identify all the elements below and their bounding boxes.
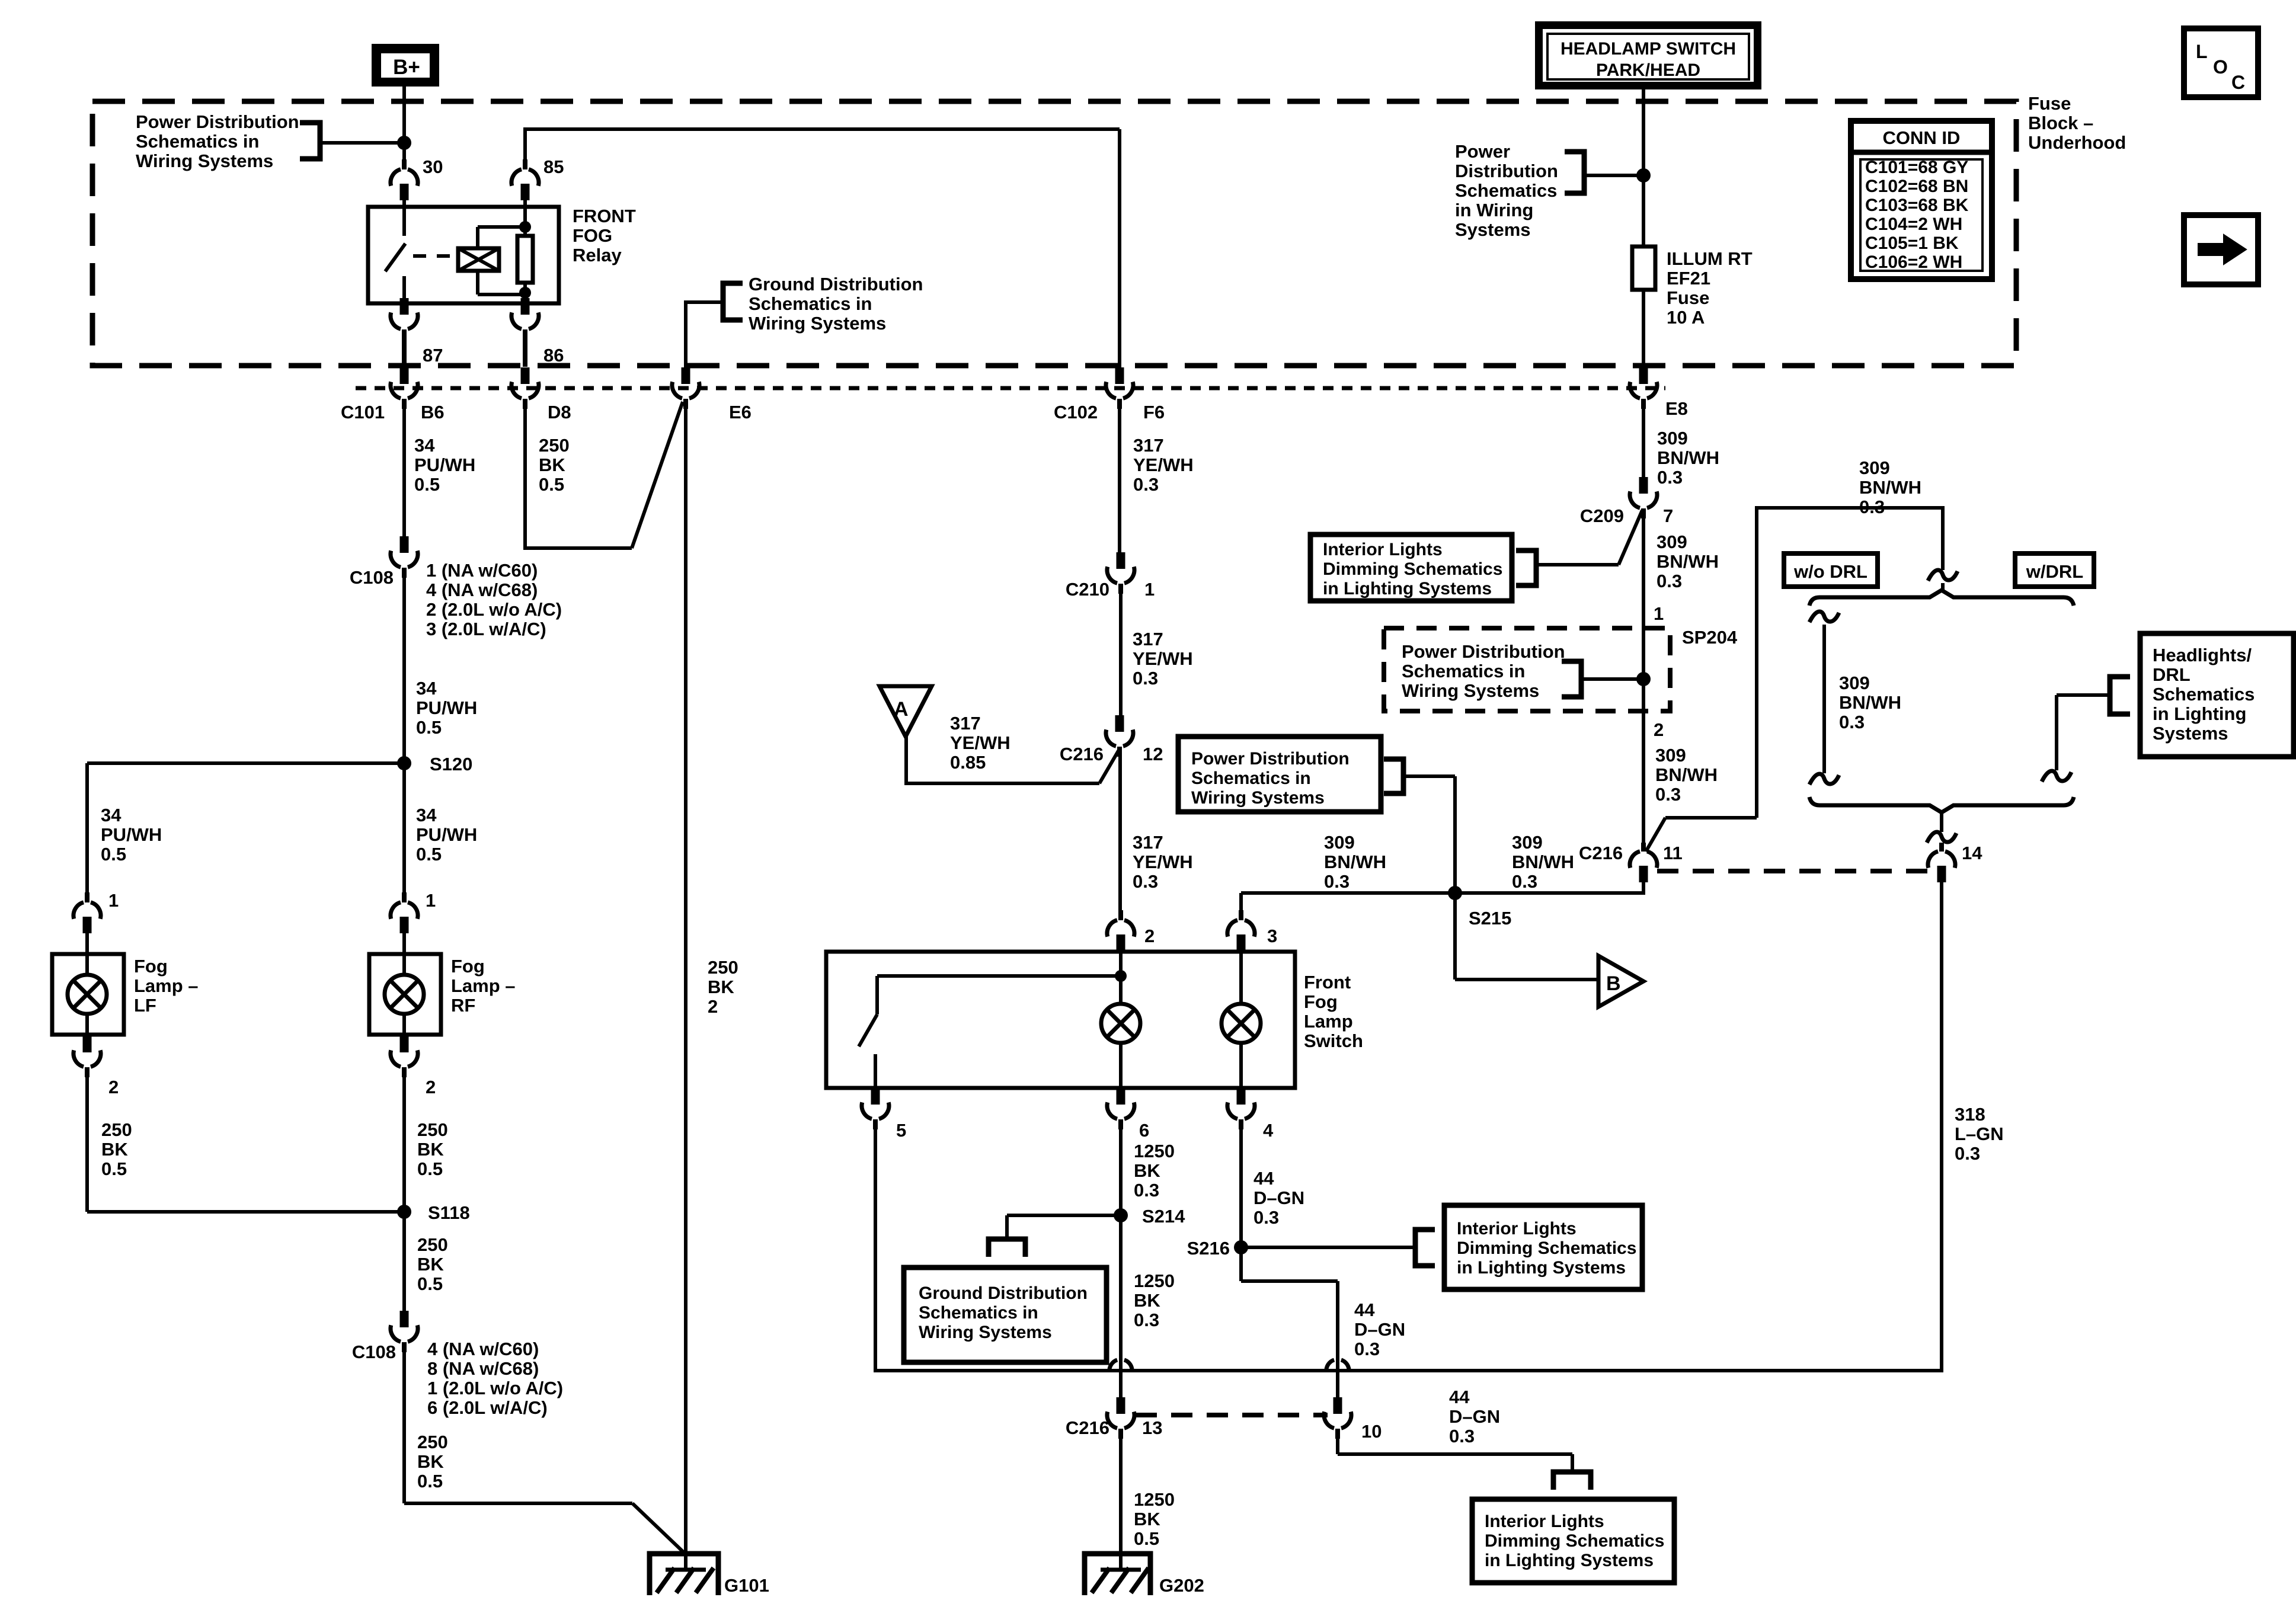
relay coil link dashed — [413, 254, 455, 258]
wire F6 to C210 — [1118, 408, 1121, 553]
label C210 — [1066, 579, 1109, 600]
node S215 — [1448, 886, 1462, 900]
wire label 309 BN/WH 0.3 (right of S215) — [1512, 832, 1574, 892]
svg-text:86: 86 — [543, 345, 564, 366]
svg-text:0.5: 0.5 — [417, 1158, 443, 1179]
label 87 — [423, 345, 443, 366]
power supply B+ box — [372, 44, 439, 87]
wire label 44 D-GN 0.3 (pin 10) — [1449, 1387, 1500, 1446]
svg-text:5: 5 — [896, 1120, 906, 1141]
wire S118 to C108 lower — [402, 1212, 406, 1311]
break w/o DRL top — [1809, 612, 1839, 622]
wire C209 to SP204 to C216-11 — [1642, 518, 1645, 844]
svg-text:Interior Lights: Interior Lights — [1485, 1512, 1604, 1531]
svg-text:Ground Distribution: Ground Distribution — [749, 274, 923, 295]
connector pin 86 — [511, 298, 539, 367]
wire label 309 BN/WH 0.3 (top right) — [1859, 457, 1921, 517]
label Ground Distribution Schematics in Wiring Systems (lower) — [919, 1283, 1088, 1342]
svg-text:7: 7 — [1663, 505, 1673, 526]
wire break to brace — [1941, 583, 1945, 593]
svg-text:B+: B+ — [393, 56, 420, 79]
svg-text:Fog: Fog — [1304, 991, 1338, 1012]
wire S216 to connector 10 — [1241, 1247, 1338, 1397]
label S215 — [1469, 908, 1511, 929]
wire S216 to interior lights bracket — [1241, 1246, 1415, 1249]
dashed line C216 13-10 — [1136, 1413, 1328, 1417]
svg-text:4 (NA w/C60): 4 (NA w/C60) — [427, 1339, 539, 1359]
svg-text:317: 317 — [1133, 832, 1163, 853]
svg-text:Wiring Systems: Wiring Systems — [136, 151, 273, 171]
svg-text:6 (2.0L w/A/C): 6 (2.0L w/A/C) — [427, 1397, 548, 1418]
svg-text:w/DRL: w/DRL — [2026, 561, 2083, 582]
svg-text:0.3: 0.3 — [1655, 784, 1681, 805]
connector fog lamp LF pin 1 — [73, 892, 101, 933]
connector switch pin 3 — [1227, 910, 1255, 951]
svg-text:Lamp: Lamp — [1304, 1011, 1353, 1032]
node SP204 — [1636, 672, 1651, 686]
label 3 (switch) — [1267, 926, 1277, 946]
wire bracket to S215 — [1403, 776, 1455, 893]
label S120 — [430, 754, 472, 774]
connector C210 pin 1 — [1107, 552, 1134, 594]
svg-text:C101=68 GY: C101=68 GY — [1865, 158, 1968, 177]
wire label 309 BN/WH 0.3 (w/o DRL) — [1839, 673, 1901, 732]
wire label 250 BK 0.5 (to G101) — [417, 1432, 448, 1491]
wire C210 to C216-12 — [1119, 593, 1123, 716]
svg-text:0.5: 0.5 — [417, 1471, 443, 1491]
svg-text:0.3: 0.3 — [1354, 1339, 1380, 1359]
node S216 — [1234, 1240, 1248, 1254]
wire E8 to C209 — [1642, 408, 1645, 478]
svg-text:Lamp –: Lamp – — [451, 975, 516, 996]
reference bracket interior lights (top) — [1516, 550, 1536, 585]
svg-text:Wiring Systems: Wiring Systems — [1191, 788, 1325, 808]
svg-text:250: 250 — [417, 1119, 448, 1140]
svg-text:34: 34 — [416, 805, 437, 825]
svg-text:Fog: Fog — [451, 956, 485, 977]
label 12 — [1143, 744, 1163, 764]
svg-text:2: 2 — [426, 1077, 436, 1097]
svg-text:ILLUM RT: ILLUM RT — [1667, 248, 1753, 269]
wire label 250 BK 0.5 (RF) — [417, 1119, 448, 1179]
label S214 — [1142, 1206, 1185, 1227]
label 2 (RF) — [426, 1077, 436, 1097]
svg-text:0.3: 0.3 — [1512, 871, 1537, 892]
label S118 — [428, 1202, 470, 1223]
relay resistor — [517, 200, 533, 299]
svg-text:C216: C216 — [1066, 1417, 1109, 1438]
wire C216-12 to switch pin 2 — [1118, 748, 1122, 913]
svg-text:BN/WH: BN/WH — [1324, 852, 1386, 872]
svg-text:C108: C108 — [352, 1342, 396, 1362]
svg-text:BN/WH: BN/WH — [1655, 764, 1718, 785]
svg-text:PU/WH: PU/WH — [414, 454, 475, 475]
label C216 (11) — [1579, 843, 1623, 863]
svg-text:3 (2.0L w/A/C): 3 (2.0L w/A/C) — [426, 619, 546, 639]
label Interior Lights Dimming Schematics in Lighting Systems (middle) — [1457, 1219, 1636, 1278]
svg-text:0.5: 0.5 — [101, 1158, 127, 1179]
wire label 250 BK 0.5 (D8) — [539, 435, 570, 495]
connector C216 pin 11 — [1630, 843, 1657, 882]
svg-text:317: 317 — [1133, 629, 1163, 649]
wire label 317 YE/WH 0.3 (C210) — [1133, 629, 1193, 689]
svg-text:HEADLAMP SWITCH: HEADLAMP SWITCH — [1560, 39, 1736, 59]
svg-text:2: 2 — [1144, 926, 1155, 946]
label G202 — [1159, 1575, 1204, 1596]
connector C108 (upper) — [391, 536, 418, 578]
svg-text:1: 1 — [1144, 579, 1155, 600]
label FRONT FOG Relay — [573, 206, 636, 265]
svg-text:D8: D8 — [548, 402, 571, 422]
interior lights box (bottom) — [1472, 1499, 1674, 1583]
svg-text:30: 30 — [423, 156, 443, 177]
svg-text:Dimming Schematics: Dimming Schematics — [1323, 559, 1502, 579]
svg-text:44: 44 — [1253, 1168, 1274, 1189]
wire S215 bus — [1241, 882, 1643, 913]
svg-text:Power: Power — [1455, 141, 1510, 162]
fog lamp LF bulb — [68, 975, 107, 1014]
label Fog Lamp - LF — [134, 956, 199, 1016]
wire 13 to G202 — [1119, 1438, 1123, 1556]
label Interior Lights Dimming Schematics in Lighting Systems (bottom) — [1485, 1512, 1664, 1570]
wire label 1250 BK 0.3 (pin 6) — [1134, 1141, 1175, 1201]
wire LF pin2 to S118 — [87, 1077, 404, 1212]
wire C108 to S120 — [402, 577, 406, 895]
svg-text:10 A: 10 A — [1667, 307, 1705, 328]
svg-text:Schematics: Schematics — [1455, 180, 1557, 201]
wire fuse to E8 — [1642, 290, 1645, 369]
break above pin 14 — [1927, 832, 1956, 843]
label SP204 — [1682, 627, 1738, 648]
svg-text:1: 1 — [426, 890, 436, 911]
node switch feed — [1115, 970, 1127, 982]
connector pin 87 — [391, 298, 418, 367]
svg-text:Dimming Schematics: Dimming Schematics — [1457, 1238, 1636, 1258]
reference bracket interior lights (middle) — [1415, 1230, 1435, 1266]
svg-text:S214: S214 — [1142, 1206, 1185, 1227]
svg-text:in Lighting Systems: in Lighting Systems — [1485, 1551, 1654, 1570]
node coil bottom — [519, 287, 531, 299]
label C101 — [341, 402, 385, 422]
switch lamp 2 wires — [1239, 950, 1243, 1089]
svg-text:0.3: 0.3 — [1657, 467, 1683, 488]
svg-text:Fuse: Fuse — [1667, 287, 1709, 308]
svg-text:0.3: 0.3 — [1839, 712, 1865, 732]
front fog relay box — [368, 207, 559, 303]
svg-text:S216: S216 — [1187, 1238, 1230, 1259]
svg-text:250: 250 — [417, 1234, 448, 1255]
hop arc at C216-13 — [1109, 1360, 1132, 1372]
svg-text:0.3: 0.3 — [1134, 1310, 1159, 1330]
hop arc at connector 10 — [1326, 1360, 1349, 1372]
svg-text:44: 44 — [1354, 1299, 1375, 1320]
svg-text:E8: E8 — [1665, 398, 1688, 419]
wire C108 lower to G101 — [404, 1352, 685, 1553]
connector B triangle — [1598, 956, 1643, 1007]
wire C209 branch to interior lights (diagonal) — [1536, 510, 1642, 565]
front fog lamp switch box — [826, 952, 1295, 1088]
headlamp switch box — [1535, 21, 1761, 89]
label 1 (C210) — [1144, 579, 1155, 600]
wire label 309 BN/WH 0.3 (left of S215) — [1324, 832, 1386, 892]
svg-text:12: 12 — [1143, 744, 1163, 764]
node S214 — [1114, 1208, 1128, 1222]
wire label 317 YE/WH 0.3 (F6) — [1133, 435, 1194, 495]
svg-text:Block –: Block – — [2028, 113, 2093, 133]
wire label 250 BK 2 — [708, 957, 738, 1017]
wire headlamp switch to fuse — [1642, 89, 1645, 247]
connector switch pin 2 — [1107, 910, 1134, 951]
svg-text:EF21: EF21 — [1667, 268, 1710, 289]
label 10 — [1361, 1421, 1382, 1442]
svg-text:Schematics in: Schematics in — [919, 1303, 1038, 1323]
connector C209 pin 7 — [1630, 477, 1657, 518]
label Fuse Block - Underhood — [2028, 93, 2126, 153]
svg-text:C106=2 WH: C106=2 WH — [1865, 252, 1962, 272]
wire pin 5 to bus — [875, 1129, 1942, 1372]
loc box — [2184, 28, 2258, 97]
connector row dotted line C101/C102 — [356, 386, 1665, 391]
connector fog lamp RF pin 1 — [391, 892, 418, 933]
connector C102 F6 — [1106, 367, 1133, 409]
wire w/o-w DRL loop — [1646, 506, 1945, 852]
node junction headlamp feed — [1636, 168, 1651, 183]
svg-text:0.5: 0.5 — [417, 1273, 443, 1294]
wire S120 to left branch — [87, 763, 404, 895]
svg-text:0.3: 0.3 — [1449, 1426, 1475, 1446]
svg-text:FOG: FOG — [573, 225, 612, 246]
svg-text:Front: Front — [1304, 972, 1351, 993]
connector C216 pin 13 — [1107, 1397, 1134, 1439]
label Power Distribution Schematics in Wiring Systems (middle) — [1191, 749, 1350, 808]
reference bracket headlights DRL — [2110, 677, 2130, 714]
label C209 — [1580, 505, 1624, 526]
reference bracket power distribution (right) — [1565, 152, 1584, 193]
wire label 34 PU/WH 0.5 (B6) — [414, 435, 475, 495]
break w/o DRL bottom — [1809, 774, 1839, 785]
label 6 — [1139, 1120, 1149, 1141]
wire S214 to ground reference — [1007, 1215, 1121, 1239]
wire SP204 bracket — [1581, 677, 1643, 681]
svg-text:YE/WH: YE/WH — [1133, 454, 1194, 475]
label Power Distribution Schematics in Wiring Systems (right) — [1455, 141, 1558, 240]
svg-text:C216: C216 — [1579, 843, 1623, 863]
svg-text:C216: C216 — [1060, 744, 1104, 764]
switch lamp 1 — [1101, 1004, 1140, 1043]
connector C216 pin 14 — [1928, 843, 1955, 882]
label 1 (SP204) — [1654, 603, 1664, 624]
svg-text:in Lighting Systems: in Lighting Systems — [1323, 579, 1492, 598]
label 30 — [423, 156, 443, 177]
label 11 — [1663, 843, 1683, 863]
wire 10 to interior lights reference — [1338, 1438, 1572, 1472]
svg-text:317: 317 — [1133, 435, 1164, 456]
label F6 — [1143, 402, 1165, 422]
connector pin 85 — [511, 159, 539, 200]
fog lamp LF box — [52, 933, 124, 1036]
label 2 (LF) — [108, 1077, 119, 1097]
svg-text:0.5: 0.5 — [414, 474, 440, 495]
fog lamp RF bulb — [385, 975, 424, 1014]
label Interior Lights Dimming Schematics in Lighting Systems (top) — [1323, 540, 1502, 598]
svg-text:250: 250 — [539, 435, 570, 456]
node S120 — [397, 756, 411, 770]
relay coil — [458, 227, 525, 295]
svg-text:309: 309 — [1655, 745, 1686, 766]
svg-text:in Lighting: in Lighting — [2153, 703, 2246, 724]
svg-text:Power Distribution: Power Distribution — [1191, 749, 1350, 769]
reference bracket power distribution (middle) — [1384, 759, 1403, 793]
svg-text:C210: C210 — [1066, 579, 1109, 600]
wire label 318 L-GN 0.3 — [1955, 1104, 2004, 1164]
svg-text:B: B — [1606, 972, 1621, 995]
wire label 250 BK 0.5 (below S118) — [417, 1234, 448, 1294]
svg-text:C101: C101 — [341, 402, 385, 422]
svg-text:PARK/HEAD: PARK/HEAD — [1596, 60, 1700, 80]
svg-text:0.5: 0.5 — [416, 844, 442, 865]
svg-text:309: 309 — [1512, 832, 1543, 853]
label B6 — [421, 402, 445, 422]
svg-text:Power Distribution: Power Distribution — [1402, 641, 1565, 662]
svg-text:0.3: 0.3 — [1134, 1180, 1159, 1201]
svg-text:1250: 1250 — [1134, 1489, 1175, 1510]
svg-text:34: 34 — [101, 805, 121, 825]
w/o DRL box — [1784, 553, 1878, 587]
svg-text:34: 34 — [416, 678, 437, 699]
svg-text:0.3: 0.3 — [1657, 571, 1682, 591]
svg-text:0.5: 0.5 — [1134, 1528, 1159, 1549]
ground reference staple (S214) — [989, 1239, 1025, 1257]
svg-text:DRL: DRL — [2153, 664, 2191, 685]
headlights DRL box — [2140, 633, 2294, 757]
power distribution box (middle) — [1178, 737, 1381, 812]
top brace (options) — [1809, 590, 2074, 606]
svg-text:2: 2 — [108, 1077, 119, 1097]
svg-text:14: 14 — [1962, 843, 1982, 863]
relay switch contact — [385, 200, 405, 299]
svg-text:Schematics: Schematics — [2153, 684, 2255, 705]
svg-text:in Wiring: in Wiring — [1455, 200, 1533, 220]
wire label 1250 BK 0.5 (to G202) — [1134, 1489, 1175, 1549]
label 13 — [1142, 1417, 1162, 1438]
svg-text:BN/WH: BN/WH — [1859, 477, 1921, 498]
connector C101 E6 — [672, 367, 699, 409]
label 2 (switch) — [1144, 926, 1155, 946]
svg-text:BN/WH: BN/WH — [1512, 852, 1574, 872]
svg-text:Ground Distribution: Ground Distribution — [919, 1283, 1088, 1303]
wire w/o DRL channel — [1822, 625, 1826, 773]
wire B6 to C108 — [402, 408, 406, 537]
svg-text:Switch: Switch — [1304, 1030, 1363, 1051]
svg-text:0.5: 0.5 — [101, 844, 126, 865]
connector fog lamp LF pin 2 — [73, 1036, 101, 1077]
sp204 dashed box — [1384, 628, 1670, 711]
arrow box — [2184, 215, 2258, 284]
svg-text:318: 318 — [1955, 1104, 1985, 1125]
svg-text:C102=68 BN: C102=68 BN — [1865, 177, 1968, 196]
connector switch pin 6 — [1107, 1088, 1134, 1129]
svg-text:C103=68 BK: C103=68 BK — [1865, 196, 1969, 215]
reference bracket power distribution (SP204) — [1562, 661, 1581, 697]
fuse ILLUM RT EF21 — [1632, 247, 1655, 290]
svg-text:BK: BK — [1134, 1290, 1160, 1311]
svg-text:250: 250 — [101, 1119, 132, 1140]
fog lamp RF box — [369, 933, 441, 1036]
svg-text:C102: C102 — [1054, 402, 1098, 422]
svg-text:D–GN: D–GN — [1354, 1319, 1405, 1340]
node S118 — [397, 1205, 411, 1219]
svg-text:BK: BK — [539, 454, 565, 475]
svg-text:250: 250 — [708, 957, 738, 978]
svg-text:0.3: 0.3 — [1133, 668, 1158, 689]
svg-text:Distribution: Distribution — [1455, 161, 1558, 181]
connector C216 pin 12 — [1106, 715, 1133, 757]
connector C216 pin 10 — [1324, 1397, 1351, 1439]
connector C101 D8 — [511, 367, 539, 409]
wire w/DRL channel — [2057, 695, 2110, 770]
svg-text:LF: LF — [134, 995, 156, 1016]
svg-text:1250: 1250 — [1134, 1270, 1175, 1291]
label C108 (upper) — [350, 567, 394, 588]
label E6 — [729, 402, 752, 422]
switch contact — [859, 976, 877, 1089]
svg-text:309: 309 — [1324, 832, 1355, 853]
switch feed wire — [877, 950, 1121, 978]
svg-text:S120: S120 — [430, 754, 472, 774]
svg-text:Underhood: Underhood — [2028, 132, 2126, 153]
svg-text:CONN ID: CONN ID — [1883, 127, 1961, 148]
node junction on B+ wire — [397, 136, 411, 150]
label C108 upper pin list — [426, 560, 562, 639]
svg-text:PU/WH: PU/WH — [101, 824, 162, 845]
svg-text:BK: BK — [417, 1451, 444, 1472]
ground G202 — [1085, 1549, 1150, 1595]
svg-text:13: 13 — [1142, 1417, 1162, 1438]
svg-text:1 (NA w/C60): 1 (NA w/C60) — [426, 560, 538, 581]
wire label 317 YE/WH 0.85 — [950, 713, 1011, 773]
svg-text:Fuse: Fuse — [2028, 93, 2071, 114]
svg-text:317: 317 — [950, 713, 981, 734]
svg-text:C105=1 BK: C105=1 BK — [1865, 233, 1959, 253]
svg-text:2: 2 — [1654, 719, 1664, 740]
wire D8 down-right to E6 diagonal — [523, 402, 683, 548]
svg-text:1: 1 — [1654, 603, 1664, 624]
ground reference staple (pin 10) — [1553, 1472, 1591, 1490]
svg-text:11: 11 — [1663, 843, 1683, 863]
label Fog Lamp - RF — [451, 956, 516, 1016]
svg-text:BK: BK — [101, 1139, 128, 1160]
wire label 250 BK 0.5 (LF) — [101, 1119, 132, 1179]
wire label 34 PU/WH 0.5 (left branch) — [101, 805, 162, 865]
svg-text:Systems: Systems — [2153, 723, 2228, 744]
svg-text:1250: 1250 — [1134, 1141, 1175, 1161]
svg-text:S118: S118 — [428, 1202, 470, 1223]
label 1 (RF) — [426, 890, 436, 911]
wire pin 6 to S214 and C216-13 — [1119, 1129, 1123, 1397]
label D8 — [548, 402, 571, 422]
wire label 309 BN/WH 0.3 (E8) — [1657, 428, 1719, 488]
svg-text:C104=2 WH: C104=2 WH — [1865, 215, 1962, 234]
wire S215 to B — [1455, 893, 1598, 980]
interior lights box (middle) — [1444, 1205, 1642, 1289]
label 85 — [543, 156, 564, 177]
svg-text:2 (2.0L w/o A/C): 2 (2.0L w/o A/C) — [426, 599, 562, 620]
svg-text:0.5: 0.5 — [416, 717, 442, 738]
svg-text:309: 309 — [1839, 673, 1870, 693]
svg-text:PU/WH: PU/WH — [416, 697, 477, 718]
connector pin 30 — [391, 159, 418, 200]
svg-text:309: 309 — [1859, 457, 1890, 478]
